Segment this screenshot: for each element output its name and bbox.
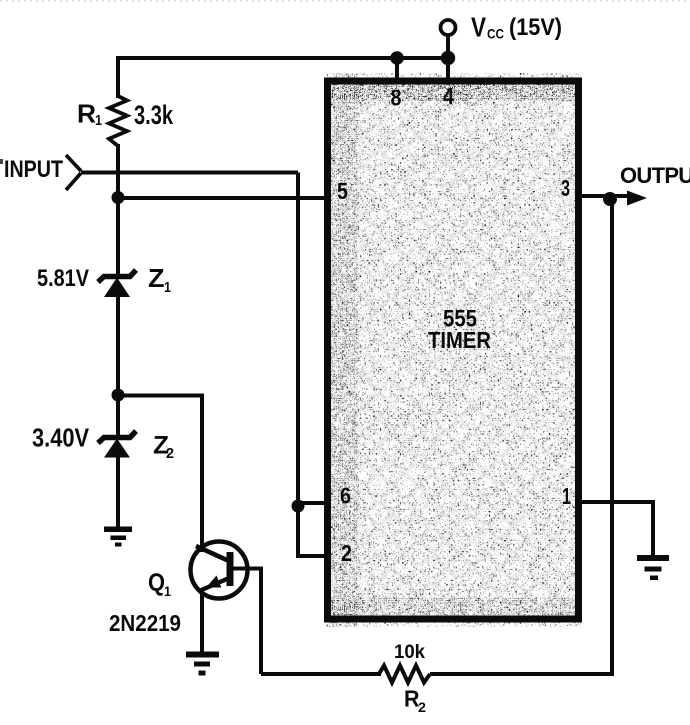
junction on bus above pin 4 xyxy=(441,51,455,65)
svg-text:1: 1 xyxy=(562,483,571,509)
IC 555 timer box U1 body fill xyxy=(331,84,576,616)
svg-text:2: 2 xyxy=(418,699,426,715)
terminal Vcc xyxy=(441,20,456,35)
wire pin 3 output xyxy=(579,194,632,198)
svg-text:4: 4 xyxy=(443,83,454,109)
svg-text:(15V): (15V) xyxy=(509,14,562,41)
ground under Z2 xyxy=(104,527,132,547)
svg-text:3: 3 xyxy=(561,175,570,201)
svg-text:R: R xyxy=(77,99,96,129)
output arrowhead xyxy=(627,191,647,206)
label Z1 xyxy=(148,263,171,296)
wire Vcc stub xyxy=(446,36,450,58)
svg-text:1: 1 xyxy=(164,583,171,599)
junction at pin 6 branch xyxy=(292,500,305,513)
ground under Q1 xyxy=(186,652,219,676)
wire Z2 to ground xyxy=(116,455,120,528)
wire node to Q1 collector xyxy=(118,396,202,553)
svg-text:8: 8 xyxy=(391,85,402,111)
svg-text:2: 2 xyxy=(341,540,352,566)
IC 555 timer box U1 border xyxy=(328,81,579,619)
label Vcc (15V) xyxy=(471,12,562,43)
junction output node xyxy=(603,192,617,206)
wire input horizontal xyxy=(81,171,298,175)
svg-text:2N2219: 2N2219 xyxy=(109,610,181,636)
junction control node xyxy=(112,191,125,204)
wire stub to pin 4 xyxy=(446,58,450,80)
svg-text:5.81V: 5.81V xyxy=(37,265,90,292)
svg-text:INPUT: INPUT xyxy=(4,156,63,183)
svg-text:2: 2 xyxy=(166,445,174,462)
svg-text:TIMER: TIMER xyxy=(428,327,491,353)
label 555 TIMER xyxy=(428,306,491,354)
zener Z2 symbol xyxy=(98,431,136,458)
wire to pin 6 xyxy=(298,501,327,505)
resistor R1 zigzag xyxy=(109,96,127,146)
svg-text:1: 1 xyxy=(95,112,102,129)
junction Z2 top node xyxy=(112,389,125,402)
svg-text:Q: Q xyxy=(148,569,165,597)
zener Z1 symbol xyxy=(98,270,136,297)
wire left rail R1 to Z1 xyxy=(116,144,120,278)
wire Q1 emitter to ground xyxy=(200,592,204,654)
wire stub to pin 8 xyxy=(395,58,399,80)
junction on bus above pin 8 xyxy=(390,51,404,65)
wire bottom run to R2 xyxy=(261,672,381,676)
wire top supply bus xyxy=(118,58,455,98)
svg-text:OUTPUT: OUTPUT xyxy=(620,163,690,188)
resistor R2 zigzag xyxy=(379,666,430,683)
label R2 xyxy=(404,686,426,716)
svg-text:10k: 10k xyxy=(394,641,425,663)
wire to pin 2 xyxy=(296,554,327,558)
wire Q1 base lead xyxy=(232,569,261,675)
wire to pin 5 xyxy=(118,196,327,200)
ground at pin 1 xyxy=(637,555,669,580)
svg-text:Z: Z xyxy=(148,263,165,293)
input chevron xyxy=(66,155,81,190)
label Q1 xyxy=(148,569,171,599)
transistor Q1 xyxy=(191,542,248,599)
label Z2 xyxy=(153,432,174,463)
svg-text:3.3k: 3.3k xyxy=(134,100,174,130)
wire pin 1 xyxy=(579,502,653,556)
svg-text:CC: CC xyxy=(487,26,504,42)
svg-text:5: 5 xyxy=(337,178,348,204)
wire input vertical drop xyxy=(296,173,300,557)
svg-text:V: V xyxy=(471,12,487,43)
wire R2 to output node xyxy=(430,203,612,674)
label R1 xyxy=(77,99,102,130)
svg-text:1: 1 xyxy=(164,279,171,296)
svg-text:3.40V: 3.40V xyxy=(32,425,89,453)
svg-text:6: 6 xyxy=(340,483,351,509)
wire Z1 to Z2 xyxy=(116,295,120,437)
